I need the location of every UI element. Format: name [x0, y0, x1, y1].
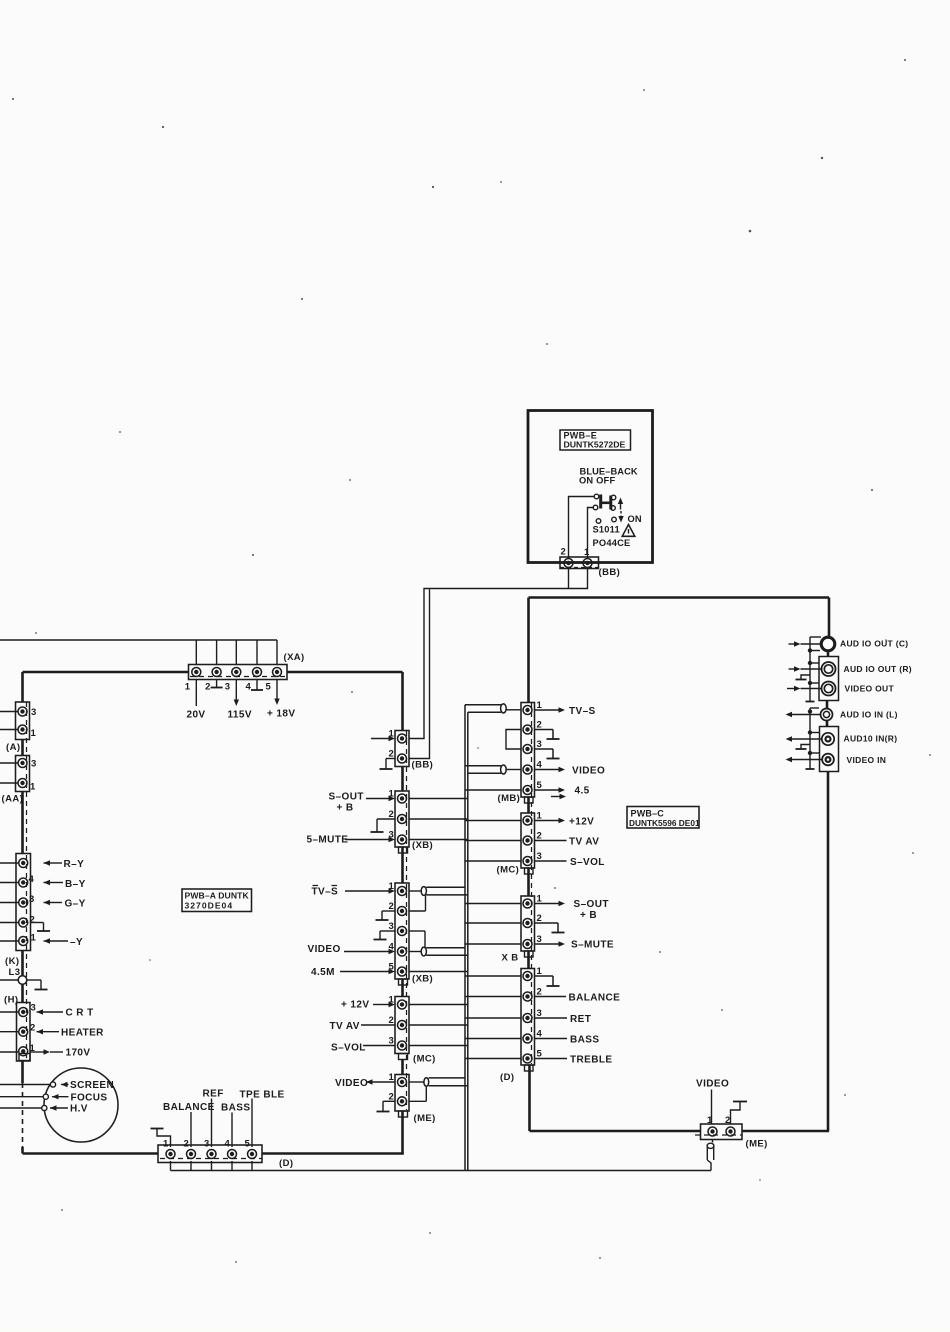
- wire into K pin2: [0, 922, 18, 924]
- svg-text:(K): (K): [5, 956, 19, 967]
- connector D box: [158, 1145, 262, 1163]
- label AUDIO OUT C: [840, 639, 908, 649]
- svg-text:(MC): (MC): [413, 1054, 436, 1065]
- svg-text:(ME): (ME): [414, 1113, 436, 1124]
- svg-text:S–MUTE: S–MUTE: [571, 940, 614, 951]
- connector XA pin 1: [192, 668, 201, 677]
- wire bus above XA: [0, 639, 277, 641]
- svg-text:PWB–C: PWB–C: [631, 809, 665, 819]
- svg-text:TPE BLE: TPE BLE: [240, 1090, 285, 1101]
- svg-text:(BB): (BB): [412, 760, 434, 771]
- junction dots OUT group: [808, 648, 812, 685]
- label VIDEO OUT: [845, 684, 895, 694]
- label BLUE-BACK ON OFF: [579, 467, 638, 486]
- connector BB-E dashed line: [560, 567, 599, 569]
- connector XB lower left pin 2: [398, 907, 407, 916]
- svg-text:VIDEO IN: VIDEO IN: [847, 755, 887, 765]
- PWB-C board right edge: [827, 598, 829, 1132]
- connector BB-E box: [560, 557, 599, 569]
- wire RET out of D pin3: [535, 1017, 568, 1019]
- svg-text:3: 3: [31, 707, 37, 718]
- connector A pin 3: [18, 707, 27, 716]
- svg-text:VIDEO: VIDEO: [572, 766, 605, 777]
- svg-text:1: 1: [185, 682, 191, 693]
- connector XB lower left pin numbers: [389, 881, 395, 973]
- RCA jack AUDIO IN L: [821, 709, 833, 721]
- wire arrow VIDEO out of MB pin4: [535, 767, 566, 772]
- wire HEATER into H pin2: [0, 1029, 59, 1034]
- wire into A pin1: [0, 729, 18, 731]
- label TV-S right: [569, 706, 596, 717]
- wire TV AV from harness to right column: [465, 840, 521, 842]
- svg-text:(MC): (MC): [497, 865, 520, 876]
- svg-text:5: 5: [245, 1139, 251, 1150]
- wire REF to D pin3: [211, 1099, 213, 1148]
- connector XB right bottom tab: [525, 951, 534, 957]
- connector BB left box: [395, 731, 409, 767]
- connector ME left pin numbers: [389, 1072, 395, 1102]
- connector ME left bottom tab: [399, 1111, 408, 1117]
- cable VIDEO shield to XB-lower pin3: [409, 931, 425, 948]
- svg-text:(BB): (BB): [599, 567, 621, 578]
- connector XB lower left bottom tab: [399, 979, 408, 985]
- wire XA pin3 arrow to 115V: [234, 680, 239, 707]
- wire BALANCE to D pin2: [190, 1112, 192, 1147]
- wire arrow out of ME-left pin1: [366, 1079, 395, 1084]
- wire arrow 4.5 out of MB pin5: [535, 787, 566, 792]
- svg-text:RET: RET: [570, 1014, 591, 1025]
- wire arrow into XB-upper pin1: [366, 796, 395, 801]
- label (XB) lower left: [412, 974, 433, 985]
- connector XB upper left pin numbers: [389, 789, 395, 841]
- label C R T: [66, 1008, 94, 1019]
- label -Y: [70, 937, 83, 948]
- RCA jack AUDIO OUT R: [822, 662, 836, 676]
- wire below D pin 1: [170, 1161, 172, 1171]
- wire into AA pin1: [0, 782, 18, 784]
- wire arrow into XB-upper pin3: [345, 837, 395, 842]
- label (ME) bottom: [746, 1139, 768, 1150]
- svg-text:S–VOL: S–VOL: [570, 857, 605, 868]
- connector MC left pin numbers: [389, 995, 395, 1047]
- svg-text:–Y: –Y: [70, 937, 83, 948]
- label +12V right: [569, 817, 594, 828]
- left edge dashed line through connectors: [26, 702, 28, 1058]
- ground at XA pin 2: [211, 680, 223, 688]
- svg-text:2: 2: [205, 682, 211, 693]
- connector BB-E pin 2: [564, 559, 573, 568]
- wire S-VOL from left column to harness: [409, 1045, 468, 1047]
- label VIDEO left: [308, 944, 341, 955]
- connector XA pin 5: [273, 668, 282, 677]
- wire riser to XA pin 1: [195, 640, 197, 665]
- svg-text:1: 1: [163, 1139, 169, 1150]
- connector AA pin numbers: [30, 759, 37, 793]
- svg-text:(XB): (XB): [412, 974, 433, 985]
- svg-text:TREBLE: TREBLE: [570, 1055, 612, 1066]
- wire jog MB pin2 to pin3: [506, 730, 521, 750]
- connector K box: [16, 854, 31, 951]
- svg-text:1: 1: [31, 933, 37, 944]
- label 20V: [187, 710, 206, 721]
- svg-text:AUD IO OUT (C): AUD IO OUT (C): [840, 639, 908, 649]
- label RET: [570, 1014, 591, 1025]
- PWB-A board label box: [182, 889, 252, 912]
- wire RET from harness to right column: [465, 1017, 521, 1019]
- wire shield bus IN group: [810, 708, 820, 769]
- ground at ME-left pin2: [377, 1101, 396, 1111]
- connector XB right pin 1: [523, 899, 532, 908]
- svg-text:TV–S: TV–S: [312, 887, 339, 898]
- connector MC right pin 2: [523, 836, 532, 845]
- cable below ME bottom: [707, 1140, 714, 1171]
- wire arrow into BB-left pin1: [371, 736, 395, 741]
- connector D right pin numbers: [537, 966, 543, 1060]
- label VIDEO at ME bottom: [696, 1079, 729, 1090]
- label 4.5M: [311, 967, 335, 978]
- label G-Y: [65, 899, 86, 910]
- RCA jack VIDEO IN: [822, 754, 834, 766]
- ground at MB pin3: [535, 749, 560, 759]
- wire TV AV out of MC pin2: [535, 840, 567, 842]
- connector AA pin 3: [18, 759, 27, 768]
- svg-text:+ B: + B: [580, 910, 597, 921]
- connector D right bottom tab: [525, 1065, 534, 1071]
- label (H): [4, 995, 18, 1006]
- connector XB right box: [521, 896, 535, 951]
- connector XB upper left pin 3: [398, 835, 407, 844]
- connector MB pin 1: [523, 706, 532, 715]
- svg-text:PO44CE: PO44CE: [593, 538, 631, 548]
- connector MB bottom tab: [525, 797, 534, 803]
- connector MC left bottom tab: [399, 1054, 408, 1060]
- CRT terminal FOCUS: [43, 1094, 48, 1099]
- connector A pin numbers: [31, 707, 37, 739]
- ground bar IN group: [806, 768, 815, 770]
- svg-text:170V: 170V: [66, 1048, 91, 1059]
- connector XB upper left bottom tab: [399, 847, 408, 853]
- wire arrow out of AUDIO IN R: [786, 736, 822, 741]
- connector D pin 3: [207, 1150, 216, 1159]
- svg-text:4.5: 4.5: [575, 786, 590, 797]
- svg-text:4: 4: [225, 1139, 231, 1150]
- label AUDIO IN L: [840, 710, 898, 720]
- label S-OUT +B left: [329, 792, 364, 814]
- switch S1011 contacts: [593, 494, 616, 523]
- switch S1011 actuator: [599, 495, 612, 510]
- label PO44CE: [593, 538, 631, 548]
- wire XA pin1 to 20V: [195, 680, 197, 707]
- connector ME bottom dashed line: [695, 1134, 742, 1136]
- connector XB lower left pin 3: [398, 927, 407, 936]
- label (XB) upper left: [412, 840, 433, 851]
- connector XB lower left pin 1: [398, 887, 407, 896]
- connector K pin 1: [19, 937, 28, 946]
- svg-text:AUD10 IN(R): AUD10 IN(R): [844, 734, 898, 744]
- PWB-A board top edge: [23, 671, 403, 674]
- wire arrow into VIDEO OUT: [787, 686, 821, 691]
- svg-text:5–MUTE: 5–MUTE: [307, 835, 349, 846]
- wire into AA pin3: [0, 762, 18, 764]
- connector D right pin 3: [523, 1014, 532, 1023]
- ground at XB-upper pin2: [371, 819, 396, 832]
- CRT envelope circle: [44, 1068, 118, 1142]
- connector XB right pin 3: [523, 940, 532, 949]
- connector ME left box: [395, 1075, 409, 1112]
- label ON: [628, 514, 642, 524]
- ground at MB pin2: [535, 730, 560, 740]
- svg-text:X B: X B: [502, 953, 519, 964]
- wire S-VOL out of MC pin3: [535, 860, 567, 862]
- label TPE BLE: [240, 1090, 285, 1101]
- PWB-E label text: [564, 431, 626, 450]
- wire arrow into AUDIO OUT R: [789, 666, 822, 671]
- wire D1 from harness to right column: [465, 975, 521, 977]
- connector XB lower left box: [395, 883, 409, 979]
- label R-Y: [64, 859, 85, 870]
- svg-text:5: 5: [266, 682, 272, 693]
- connector BB left pin numbers: [389, 729, 395, 760]
- label (MB): [498, 793, 521, 804]
- wire arrow S-MUTE out of XB pin3: [535, 941, 566, 946]
- label S1011: [593, 525, 620, 535]
- wire harness bottom run: [171, 1170, 712, 1172]
- connector XA pin 3: [232, 668, 241, 677]
- wire R-Y into K pin5: [0, 860, 62, 865]
- connector D right pin 4: [523, 1034, 532, 1043]
- label SCREEN: [70, 1080, 114, 1091]
- label (MC) right: [497, 865, 520, 876]
- connector A box: [16, 702, 30, 740]
- svg-text:1: 1: [584, 547, 590, 558]
- label H.V: [70, 1104, 88, 1115]
- wire +12V from left column to harness: [409, 1004, 468, 1006]
- wire switch to BB-E pin2: [569, 497, 595, 559]
- wire TV AV from left column to harness: [409, 1024, 468, 1026]
- connector XA dashed edge line: [190, 676, 285, 678]
- wire BB-E pin2 to BB-left pin2: [409, 568, 569, 759]
- PWB-A board label text: [185, 891, 250, 911]
- svg-text:S1011: S1011: [593, 525, 620, 535]
- connector BB-E pin numbers: [561, 547, 591, 559]
- small arrow under 4.5: [551, 794, 566, 799]
- label (AA): [2, 794, 24, 805]
- warning triangle: [622, 525, 635, 537]
- ground at D pin1 top: [151, 1129, 171, 1148]
- svg-text:L3: L3: [9, 967, 21, 978]
- cable TV-S shield to XB-lower pin2: [409, 896, 426, 912]
- svg-text:1: 1: [30, 782, 36, 793]
- label TREBLE: [570, 1055, 612, 1066]
- wire BB-E pin1 to BB-left pin1: [409, 568, 588, 739]
- ground at D-right pin1: [535, 976, 560, 986]
- wire CRT into H pin3: [0, 1009, 63, 1014]
- wire arrow into XB-lower pin4: [344, 949, 395, 954]
- svg-text:3: 3: [29, 894, 35, 905]
- CRT terminal SCREEN: [50, 1082, 55, 1087]
- label BASS right: [570, 1035, 599, 1046]
- svg-text:REF: REF: [203, 1089, 224, 1100]
- connector XB right pin 2: [523, 919, 532, 928]
- ground at BB-left pin2: [380, 759, 396, 770]
- label X B: [502, 953, 519, 964]
- svg-text:TV AV: TV AV: [330, 1021, 360, 1032]
- svg-text:PWB–A DUNTK: PWB–A DUNTK: [185, 891, 250, 901]
- wire riser to XA pin 5: [276, 640, 278, 665]
- wire BASS to D pin4: [231, 1113, 233, 1148]
- connector XB lower left pin 5: [398, 967, 407, 976]
- wire BALANCE out of D pin2: [535, 996, 567, 998]
- svg-text:DUNTK5272DE: DUNTK5272DE: [564, 440, 626, 450]
- wire 4.5 from harness to right column: [465, 789, 521, 791]
- svg-text:(A): (A): [6, 742, 20, 753]
- connector MB pin 5: [523, 786, 532, 795]
- connector D dashed line: [160, 1158, 262, 1160]
- ground hook IN group: [796, 745, 811, 750]
- connector MC right bottom tab: [525, 868, 534, 874]
- wire arrow TV-S out of MB pin1: [535, 707, 566, 712]
- svg-text:+ 18V: + 18V: [267, 709, 295, 720]
- svg-text:3270DE04: 3270DE04: [185, 901, 234, 911]
- node L3 terminal: [18, 976, 27, 985]
- connector H box: [17, 1003, 31, 1062]
- connector A pin 1: [18, 725, 27, 734]
- cable VIDEO lower end: [409, 947, 468, 956]
- ground bar OUT group: [806, 701, 815, 703]
- PWB-C board bottom edge: [530, 1130, 830, 1133]
- svg-text:TV–S: TV–S: [569, 706, 596, 717]
- wire B-Y into K pin4: [0, 880, 63, 885]
- wire shield bus OUT group: [810, 637, 821, 702]
- connector XA box: [189, 665, 288, 680]
- svg-text:S–OUT: S–OUT: [329, 792, 364, 803]
- connector MC right pin 3: [523, 857, 532, 866]
- label BALANCE right: [569, 993, 621, 1004]
- wire 5-MUTE from left column to harness: [409, 839, 468, 841]
- PWB-E board box: [528, 411, 653, 563]
- wire arrow into MC-left pin1: [373, 1002, 395, 1007]
- PWB-C board left edge: [529, 598, 530, 1132]
- svg-text:ON: ON: [628, 514, 642, 524]
- connector MC right box: [521, 813, 535, 868]
- PWB-C board top edge: [529, 596, 830, 599]
- left column dashed edge line: [406, 731, 408, 1110]
- connector D right pin 1: [523, 972, 532, 981]
- label HEATER: [61, 1028, 104, 1039]
- wire switch to BB-E pin1: [588, 508, 594, 559]
- wire into HV: [0, 1105, 68, 1110]
- switch arrow up: [618, 498, 623, 510]
- connector K pin numbers: [29, 874, 37, 944]
- ground at XB-lower pin3: [374, 931, 396, 940]
- connector D pin numbers: [163, 1139, 251, 1150]
- svg-text:(ME): (ME): [746, 1139, 768, 1150]
- right column dashed line: [531, 703, 533, 1064]
- svg-text:2: 2: [184, 1139, 190, 1150]
- wire S-VOL from harness to right column: [465, 860, 521, 862]
- cable VIDEO upper end: [465, 765, 521, 774]
- wire gnd XB2 from harness to right column: [465, 922, 521, 924]
- svg-text:2: 2: [30, 1023, 36, 1034]
- connector MC right pin 1: [523, 816, 532, 825]
- connector BB left pin 2: [398, 754, 407, 763]
- label (K): [5, 956, 19, 967]
- wire arrow into XB-lower pin1: [345, 888, 395, 893]
- svg-text:(XB): (XB): [412, 840, 433, 851]
- connector MC left pin 2: [398, 1021, 407, 1030]
- cable TV-S lower end: [409, 887, 468, 896]
- PWB-C board label text: [629, 809, 700, 829]
- svg-text:2: 2: [561, 547, 567, 558]
- label AUDIO OUT R: [844, 664, 912, 674]
- label FOCUS: [71, 1093, 108, 1104]
- svg-text:BASS: BASS: [221, 1103, 250, 1114]
- svg-text:S–OUT: S–OUT: [574, 899, 609, 910]
- wire arrow into AUDIO OUT C: [789, 641, 821, 646]
- svg-text:VIDEO: VIDEO: [308, 944, 341, 955]
- PWB-A board right edge: [401, 672, 404, 1154]
- connector D pin 1: [166, 1150, 175, 1159]
- wire below D pin 2: [190, 1161, 192, 1171]
- wire riser to XA pin 2: [216, 640, 218, 665]
- connector AA pin 1: [18, 779, 27, 788]
- svg-text:AUD IO IN (L): AUD IO IN (L): [840, 710, 898, 720]
- RCA jack box IN: [820, 727, 839, 772]
- wire below D pin 5: [251, 1161, 253, 1171]
- connector ME left pin 1: [398, 1078, 407, 1087]
- label TV AV right: [569, 837, 599, 848]
- label + 12V left: [341, 1000, 369, 1011]
- svg-text:VIDEO: VIDEO: [335, 1078, 368, 1089]
- wire G-Y into K pin3: [0, 900, 62, 905]
- connector K pin 2: [19, 918, 28, 927]
- svg-text:BALANCE: BALANCE: [163, 1102, 215, 1113]
- connector XB upper left box: [395, 791, 409, 847]
- connector H bottom tab: [19, 1054, 30, 1061]
- ground at XA pin 4: [251, 680, 263, 691]
- label VIDEO IN: [847, 755, 887, 765]
- label VIDEO right MB: [572, 766, 605, 777]
- wire harness vertical 1: [464, 705, 466, 1171]
- svg-text:(D): (D): [500, 1072, 514, 1083]
- wire +12V from harness to right column: [465, 820, 521, 822]
- wire XA pin5 arrow to +18V: [274, 680, 279, 706]
- connector H pin 2: [19, 1027, 28, 1036]
- connector XB upper left pin 1: [398, 794, 407, 803]
- svg-text:S–VOL: S–VOL: [331, 1043, 366, 1054]
- wire below D pin 3: [211, 1161, 213, 1171]
- wire into FOCUS: [0, 1094, 69, 1099]
- connector BB-E pin 1: [583, 559, 592, 568]
- ground at K pin2: [31, 923, 51, 932]
- wire riser to XA pin 3: [235, 640, 237, 665]
- connector H pin 3: [19, 1008, 28, 1017]
- wire below D pin 4: [231, 1161, 233, 1171]
- wire -Y into K pin1: [0, 938, 68, 943]
- connector BB left pin 1: [398, 734, 407, 743]
- svg-text:4: 4: [29, 874, 35, 885]
- label (BB) left: [412, 760, 434, 771]
- connector MC right pin numbers: [537, 811, 543, 863]
- svg-text:3: 3: [225, 682, 231, 693]
- wire S-OUT from harness to right column: [465, 903, 521, 905]
- connector AA box: [16, 756, 30, 792]
- label BALANCE: [163, 1102, 215, 1113]
- connector MC left box: [395, 997, 409, 1054]
- wire 4.5M from left column to harness: [409, 971, 468, 973]
- connector MB pin 4: [523, 765, 532, 774]
- ground at XB-right pin2: [535, 923, 565, 933]
